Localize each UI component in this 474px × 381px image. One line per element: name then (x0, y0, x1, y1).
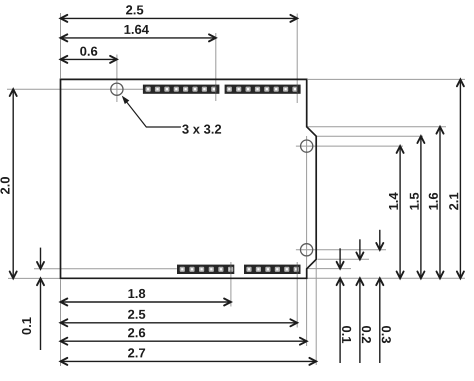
dimension 0.2 bottom-right (356, 239, 371, 363)
board outline (61, 79, 317, 278)
extension line left edge bottom (x=60.5) (60, 279, 62, 366)
center line x=306.6 through holes H2 H3 (2.6 dim) (306, 136, 308, 346)
dimension 0.1 bottom-left (22, 248, 44, 350)
extension line y=268.8 left (0.1 dim bottom-left) (34, 268, 177, 270)
pin header top-left 8 pads (143, 85, 220, 94)
extension line y=259.3 (0.2 dim) (318, 258, 370, 260)
extension line hole H1 center x=116.9 (0.6 dim) (116, 55, 118, 103)
extension line left edge top (x=60.5) (60, 13, 62, 78)
extension line y=126.8 (1.6 dim) (308, 126, 447, 128)
extension line x=230.9 over bottom-left header (230, 265, 232, 274)
extension line y=249.8 H3 crosshair (0.3 dim) (296, 249, 386, 251)
extension line y=146.1 H2 crosshair (1.4 dim) (296, 145, 403, 147)
leader 3 x 3.2 to hole H1 (122, 96, 221, 134)
dimension 2.5 bottom (61, 310, 298, 327)
dimension 1.6 right (429, 127, 444, 278)
extension line bottom edge left (y=278.4) (8, 277, 60, 279)
mounting hole H1 (111, 83, 123, 95)
dimension 0.6 top (61, 47, 117, 63)
pin header bottom-right 6 pads (244, 265, 301, 274)
dimension 1.8 bottom (61, 289, 231, 306)
extension line x=297.2 over top-right header (296, 85, 298, 94)
extension line y=89.2 left (2.0 dim + H1 crosshair) (7, 88, 143, 90)
dimension 1.4 right (389, 146, 404, 278)
dimension 0.3 bottom-right (376, 230, 391, 363)
extension line x=297.2 bottom (2.5 dim) (296, 262, 298, 328)
dimension 2.1 right (449, 80, 464, 279)
extension line x=316.2 (2.7 dim) (315, 261, 317, 366)
extension line y=79.4 top edge right (2.1 dim) (308, 78, 465, 80)
extension line x=297.2 top (2.5 dim) (296, 14, 298, 104)
extension line x=215.8 (1.64 dim) (215, 33, 217, 101)
extension line y=136.2 (1.5 dim) (317, 135, 423, 137)
dimension 0.1 bottom-right (337, 248, 352, 363)
extension line x=297.2 over bottom-right header (296, 265, 298, 274)
mounting hole H3 (301, 244, 313, 256)
dimension 1.64 top (61, 25, 216, 42)
pin header top-right 8 pads (225, 85, 301, 94)
mounting hole H2 (301, 140, 313, 152)
extension line x=215.8 over top-left header (215, 85, 217, 94)
extension line y=268.6 right (0.1 dim) (308, 268, 352, 270)
dimension 1.5 right (410, 136, 425, 278)
dimension 2.0 left (0, 89, 16, 278)
dimension 2.6 bottom (61, 328, 307, 345)
dimension 2.5 top (61, 5, 298, 22)
dimension 2.7 bottom (61, 348, 317, 365)
pin header bottom-left 6 pads (177, 265, 234, 274)
extension line bottom edge right (y=278.3) (308, 277, 466, 279)
extension line x=230.9 (1.8 dim) (230, 262, 232, 307)
